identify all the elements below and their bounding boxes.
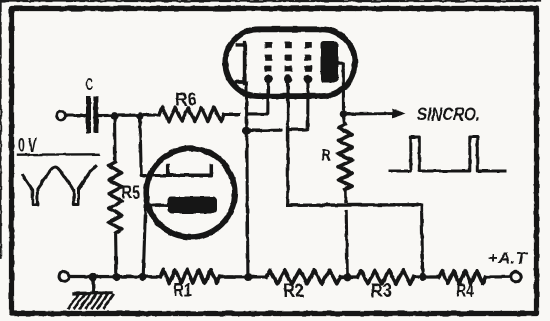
wire rail xyxy=(69,275,160,278)
wire xyxy=(344,190,347,202)
wire anode V2 xyxy=(143,205,167,277)
svg-text:R6: R6 xyxy=(175,89,197,110)
svg-text:R: R xyxy=(322,146,331,164)
svg-text:+A.T: +A.T xyxy=(488,249,529,268)
wire xyxy=(99,113,159,117)
svg-text:R1: R1 xyxy=(173,279,192,300)
wire xyxy=(346,212,347,278)
resistor R5 xyxy=(109,162,122,233)
wire rail xyxy=(341,275,358,278)
resistor R3 xyxy=(358,270,414,283)
tube V2 envelope xyxy=(146,149,235,238)
node junction xyxy=(111,112,119,120)
tube V1 anode xyxy=(321,41,339,83)
svg-text:R3: R3 xyxy=(371,281,393,302)
resistor R6 xyxy=(159,108,224,122)
wire grid3 V1 xyxy=(291,83,308,130)
wire grid2 V1 xyxy=(286,83,289,205)
waveform pulses xyxy=(390,137,506,172)
resistor R1 xyxy=(161,270,220,283)
tube V1 grid 3 xyxy=(304,42,312,83)
node sincro xyxy=(340,110,348,118)
tube V2 grid bar xyxy=(168,166,212,176)
wire xyxy=(224,113,239,116)
tube V1 envelope xyxy=(225,29,355,96)
node junction rail xyxy=(344,273,352,281)
resistor R2 xyxy=(266,270,341,283)
terminal +AT xyxy=(511,272,521,282)
wire cathode V1 xyxy=(246,83,248,277)
waveform sawtooth xyxy=(23,166,96,204)
node junction rail xyxy=(244,273,252,281)
wire reference line xyxy=(18,153,99,156)
wire xyxy=(113,118,117,162)
svg-text:C: C xyxy=(86,76,93,94)
wire xyxy=(342,118,346,125)
ground xyxy=(69,280,114,308)
wire xyxy=(422,205,423,277)
resistor R4 xyxy=(439,271,486,284)
resistor R xyxy=(339,125,353,190)
node junction rail xyxy=(139,273,147,281)
terminal input xyxy=(57,111,66,120)
wire link xyxy=(247,129,281,133)
node junction cathode xyxy=(242,126,251,135)
wire anode V1 xyxy=(338,63,344,113)
wire arrow sincro xyxy=(347,112,394,115)
wire rail xyxy=(220,275,267,278)
svg-text:0 V: 0 V xyxy=(18,135,37,156)
tube V1 cathode xyxy=(237,43,245,83)
node junction rail xyxy=(89,273,97,281)
svg-text:R5: R5 xyxy=(122,182,141,203)
node junction xyxy=(136,112,143,119)
tube V1 grid 2 xyxy=(284,42,292,83)
tube V2 anode xyxy=(168,197,218,214)
wire xyxy=(140,118,166,176)
wire rail xyxy=(414,275,440,278)
svg-text:R2: R2 xyxy=(283,281,304,302)
wire rail xyxy=(486,275,511,278)
capacitor C xyxy=(86,96,98,133)
wire xyxy=(66,114,86,117)
wire xyxy=(114,233,118,277)
tube V1 grid 1 xyxy=(264,42,272,83)
wire bus xyxy=(288,203,422,207)
svg-text:SINCRO.: SINCRO. xyxy=(417,104,480,125)
node junction rail xyxy=(112,273,120,281)
svg-text:R4: R4 xyxy=(456,280,474,300)
wire grid1 V1 xyxy=(249,83,268,114)
terminal ground xyxy=(59,272,69,282)
node junction rail xyxy=(419,273,427,281)
